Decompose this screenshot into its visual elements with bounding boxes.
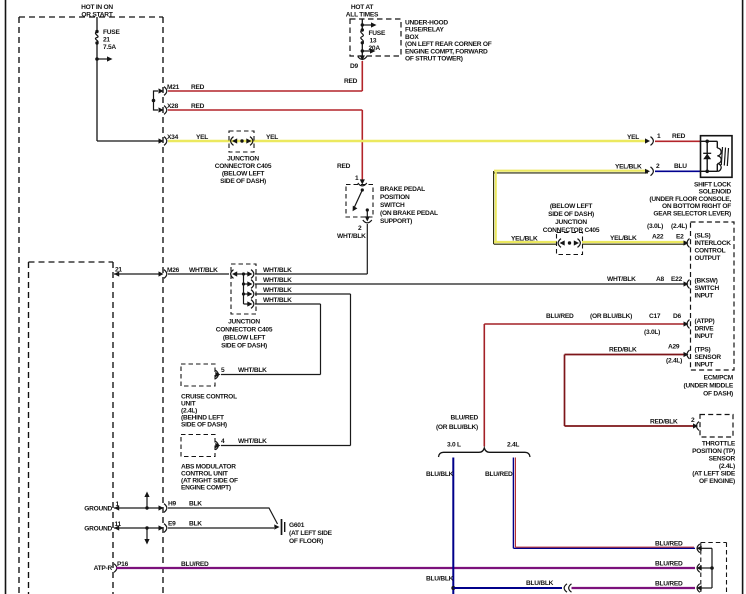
brake pedal position switch pin 2 (358, 216, 372, 232)
connector D9 (344, 55, 367, 85)
svg-text:(BEHIND LEFT: (BEHIND LEFT (181, 415, 224, 422)
svg-text:3.0 L: 3.0 L (447, 442, 461, 449)
svg-text:SIDE OF DASH): SIDE OF DASH) (220, 178, 266, 185)
page arrow up on ground wire (144, 492, 149, 510)
svg-text:YEL: YEL (266, 134, 278, 141)
svg-text:WHT/BLK: WHT/BLK (263, 267, 292, 274)
svg-text:WHT/BLK: WHT/BLK (238, 438, 267, 445)
svg-text:ABS MODULATOR: ABS MODULATOR (181, 464, 236, 471)
inline connector on bottom wire (564, 584, 571, 592)
svg-text:5: 5 (221, 367, 225, 374)
ECM pins A8/E22 (656, 276, 690, 288)
svg-text:(UNDER MIDDLE: (UNDER MIDDLE (684, 383, 734, 390)
connector M21 (159, 84, 205, 95)
svg-text:BLU/BLK: BLU/BLK (426, 471, 454, 478)
svg-text:BRAKE PEDAL: BRAKE PEDAL (380, 186, 425, 193)
connector X34 (159, 134, 209, 145)
svg-text:(TPS): (TPS) (695, 347, 711, 354)
label ECM/PCM (under middle of dash) (684, 375, 734, 398)
svg-text:D9: D9 (350, 63, 359, 70)
label (BKSW) switch input (695, 278, 720, 300)
svg-text:1: 1 (355, 175, 359, 182)
svg-text:BLU/RED: BLU/RED (655, 541, 683, 548)
svg-text:BLU/RED: BLU/RED (655, 581, 683, 588)
svg-text:2: 2 (691, 417, 695, 424)
svg-text:CONNECTOR C405: CONNECTOR C405 (543, 227, 600, 234)
svg-text:E9: E9 (168, 521, 176, 528)
svg-text:SUPPORT): SUPPORT) (380, 218, 412, 225)
svg-text:ALL TIMES: ALL TIMES (346, 12, 379, 19)
page right border (742, 0, 744, 594)
svg-text:(BELOW LEFT: (BELOW LEFT (223, 335, 266, 342)
svg-text:RED/BLK: RED/BLK (650, 419, 678, 426)
wire BLU/BLK junction to inline connector (453, 580, 562, 588)
svg-text:HOT AT: HOT AT (351, 4, 374, 11)
ECM pins A22/E2 (647, 223, 690, 247)
svg-text:SWITCH: SWITCH (695, 285, 720, 292)
svg-text:FUSE: FUSE (369, 30, 386, 37)
labels WHT/BLK at junction rows (263, 267, 292, 304)
svg-text:BLU/RED: BLU/RED (181, 561, 209, 568)
svg-text:2.4L: 2.4L (507, 442, 519, 449)
wire RED pin1 to solenoid (655, 140, 700, 142)
svg-text:A29: A29 (668, 344, 680, 351)
svg-text:SHIFT LOCK: SHIFT LOCK (694, 182, 732, 189)
wire RED/BLK A29 to throttle position sensor (565, 347, 696, 427)
throttle position sensor pin 2 (650, 417, 699, 430)
wire BLU/BLK 3.0L branch (426, 458, 454, 594)
connector X28 (159, 103, 205, 114)
svg-text:(ATPP): (ATPP) (695, 318, 715, 325)
svg-text:(SLS): (SLS) (695, 233, 711, 240)
junction connector C405 (yellow wire) (229, 131, 278, 152)
svg-text:SIDE OF DASH): SIDE OF DASH) (181, 422, 227, 429)
svg-text:OF ENGINE): OF ENGINE) (699, 478, 735, 485)
shift lock solenoid pin 1 (627, 133, 661, 145)
svg-text:WHT/BLK: WHT/BLK (607, 276, 636, 283)
wire WHT/BLK row4 to cruise control unit (221, 304, 321, 375)
wire WHT/BLK row3 to ABS modulator (221, 294, 351, 446)
connector M26 (159, 267, 219, 278)
svg-text:OUTPUT: OUTPUT (695, 255, 721, 262)
TP sensor connector row 3 (697, 584, 713, 593)
svg-text:1: 1 (657, 133, 661, 140)
label throttle position sensor (692, 441, 736, 486)
svg-text:ON BOTTOM RIGHT OF: ON BOTTOM RIGHT OF (662, 203, 731, 210)
svg-text:(OR BLU/BLK): (OR BLU/BLK) (590, 313, 632, 320)
wire WHT/BLK brake switch pin 2 to junction C405 row 1 (255, 224, 367, 274)
svg-text:13: 13 (370, 38, 377, 45)
svg-text:THROTTLE: THROTTLE (702, 441, 736, 448)
svg-text:(OR BLU/BLK): (OR BLU/BLK) (436, 424, 478, 431)
label ABS modulator control unit (181, 464, 238, 492)
svg-text:CONTROL: CONTROL (695, 248, 726, 255)
svg-text:M26: M26 (167, 267, 180, 274)
under-dash fuse/relay box (dashed boundary) (19, 17, 163, 594)
ground G601 (274, 519, 332, 545)
svg-text:WHT/BLK: WHT/BLK (263, 297, 292, 304)
internal bus of TP connector box (710, 548, 714, 588)
label (ATPP) drive input (695, 318, 715, 340)
svg-text:(ON BRAKE PEDAL: (ON BRAKE PEDAL (380, 210, 438, 217)
svg-text:BLU/RED: BLU/RED (485, 471, 513, 478)
label HOT AT ALL TIMES (346, 4, 379, 19)
svg-text:SIDE OF DASH): SIDE OF DASH) (221, 343, 267, 350)
svg-text:WHT/BLK: WHT/BLK (337, 233, 366, 240)
svg-text:(BELOW LEFT: (BELOW LEFT (222, 171, 265, 178)
svg-text:SENSOR: SENSOR (709, 456, 736, 463)
svg-text:INPUT: INPUT (695, 293, 714, 300)
svg-text:BLK: BLK (189, 521, 202, 528)
svg-text:RED: RED (191, 103, 205, 110)
label junction connector C405 (below left side of dash) right (543, 203, 600, 234)
svg-text:WHT/BLK: WHT/BLK (238, 367, 267, 374)
label brake pedal position switch (380, 186, 438, 225)
svg-text:A8: A8 (656, 276, 665, 283)
svg-text:POSITION (TP): POSITION (TP) (692, 448, 735, 455)
connector H9 (159, 501, 203, 513)
svg-text:7.5A: 7.5A (103, 44, 116, 51)
connector E9 (159, 521, 203, 533)
wire YEL X34 to shift lock solenoid pin 1 (168, 140, 648, 142)
svg-text:(AT LEFT SIDE: (AT LEFT SIDE (692, 471, 736, 478)
wire M26 to junction connector C405 (168, 273, 229, 275)
svg-text:WHT/BLK: WHT/BLK (189, 267, 218, 274)
wire fuse21 to X34 (97, 140, 159, 142)
pin P16 ATP-R (94, 561, 129, 572)
svg-text:E2: E2 (676, 234, 684, 241)
svg-text:(BKSW): (BKSW) (695, 278, 718, 285)
svg-text:YEL/BLK: YEL/BLK (511, 236, 538, 243)
svg-text:(UNDER FLOOR CONSOLE,: (UNDER FLOOR CONSOLE, (649, 196, 731, 203)
svg-text:(3.0L): (3.0L) (647, 223, 663, 230)
wire BLU pin2 to solenoid (655, 170, 700, 172)
label junction connector C405 (below left side of dash) (215, 156, 272, 186)
svg-text:21: 21 (103, 37, 110, 44)
wire RED M21 to D9 vertical (168, 61, 362, 91)
svg-text:SIDE OF DASH): SIDE OF DASH) (548, 211, 594, 218)
label HOT IN ON OR START (81, 4, 113, 19)
wire BLK E9 to G601 (168, 527, 274, 529)
brake pedal position switch pin 1 (355, 175, 367, 186)
wire BLU/RED ATP-R to bottom-right connector (116, 567, 695, 569)
svg-text:GEAR SELECTOR LEVER): GEAR SELECTOR LEVER) (653, 210, 731, 217)
svg-text:ENGINE COMPT): ENGINE COMPT) (181, 485, 231, 492)
TP sensor connector row 1 (697, 544, 713, 553)
svg-text:HOT IN ON: HOT IN ON (81, 4, 113, 11)
ECM/PCM dashed box (691, 222, 735, 370)
svg-text:ECM/PCM: ECM/PCM (704, 375, 734, 382)
throttle position sensor 2.4L connector box (701, 543, 727, 594)
svg-text:OF FLOOR): OF FLOOR) (289, 538, 323, 545)
svg-text:YEL: YEL (627, 134, 639, 141)
page arrow down on ground wire (144, 526, 149, 544)
svg-text:BLU: BLU (674, 163, 687, 170)
ABS modulator control unit box (181, 435, 267, 457)
svg-text:RED/BLK: RED/BLK (609, 347, 637, 354)
wire pin21 to M26 (114, 273, 159, 275)
ground pin 11 (84, 521, 121, 533)
svg-text:2: 2 (358, 225, 362, 232)
TP sensor connector row 2 (697, 564, 713, 573)
svg-text:UNDER-HOOD: UNDER-HOOD (405, 20, 448, 27)
svg-text:RED: RED (672, 133, 686, 140)
page left border (5, 0, 7, 594)
svg-text:INTERLOCK: INTERLOCK (695, 240, 732, 247)
svg-text:BLU/RED: BLU/RED (450, 415, 478, 422)
svg-text:WHT/BLK: WHT/BLK (263, 277, 292, 284)
junction dot on BLU/BLK (451, 586, 455, 590)
svg-text:M21: M21 (167, 84, 180, 91)
svg-text:ATP-R: ATP-R (94, 565, 113, 572)
svg-text:OF DASH): OF DASH) (703, 391, 733, 398)
wire YEL/BLK junction to ECM A22/E2 (582, 235, 686, 244)
lower-left component dashed box (29, 262, 114, 594)
svg-text:FUSE/RELAY: FUSE/RELAY (405, 27, 445, 34)
svg-text:OF STRUT TOWER): OF STRUT TOWER) (405, 56, 463, 63)
wire BLU/RED C17/D6 net (436, 313, 685, 447)
svg-text:BLU/BLK: BLU/BLK (526, 580, 554, 587)
label junction connector C405 (WHT/BLK) (216, 319, 273, 350)
svg-text:UNIT: UNIT (181, 401, 196, 408)
svg-text:RED: RED (337, 163, 351, 170)
svg-text:E22: E22 (671, 276, 683, 283)
brake pedal position switch (346, 185, 373, 220)
wire BLU/RED 2.4L branch (485, 458, 695, 549)
shift lock solenoid pin 2 (645, 163, 660, 176)
svg-text:BLU/RED: BLU/RED (655, 561, 683, 568)
svg-text:JUNCTION: JUNCTION (555, 219, 587, 226)
svg-text:SOLENOID: SOLENOID (699, 189, 732, 196)
svg-text:FUSE: FUSE (103, 29, 120, 36)
wire BLU/RED inline connector to TP sensor connector (572, 581, 696, 589)
svg-text:A22: A22 (652, 234, 664, 241)
svg-text:(AT LEFT SIDE: (AT LEFT SIDE (289, 530, 333, 537)
junction dot and bus arrow inside fusebox (95, 56, 112, 61)
svg-text:2: 2 (656, 163, 660, 170)
svg-text:CONNECTOR C405: CONNECTOR C405 (215, 163, 272, 170)
wire ground pin1 to H9 (114, 507, 159, 509)
svg-text:(2.4L): (2.4L) (671, 223, 687, 230)
ECM pin A29 (666, 344, 690, 365)
svg-text:CONNECTOR C405: CONNECTOR C405 (216, 327, 273, 334)
svg-text:(3.0L): (3.0L) (644, 329, 660, 336)
svg-text:SENSOR: SENSOR (695, 354, 722, 361)
svg-text:SWITCH: SWITCH (380, 202, 405, 209)
throttle position sensor box (700, 415, 733, 438)
svg-text:(AT RIGHT SIDE OF: (AT RIGHT SIDE OF (181, 478, 238, 485)
wire ground pin11 to E9 (114, 527, 159, 529)
svg-text:20A: 20A (369, 45, 381, 52)
svg-text:ENGINE COMPT, FORWARD: ENGINE COMPT, FORWARD (405, 48, 488, 55)
svg-text:POSITION: POSITION (380, 194, 410, 201)
svg-text:BLU/BLK: BLU/BLK (426, 576, 454, 583)
svg-text:BLK: BLK (189, 501, 202, 508)
svg-text:GROUND: GROUND (84, 506, 112, 513)
cruise control unit box (181, 364, 267, 386)
fuse 21 7.5A (95, 17, 120, 141)
svg-text:YEL/BLK: YEL/BLK (615, 164, 642, 171)
svg-text:(2.4L): (2.4L) (666, 358, 682, 365)
svg-text:CRUISE CONTROL: CRUISE CONTROL (181, 394, 237, 401)
svg-text:INPUT: INPUT (695, 333, 714, 340)
svg-text:GROUND: GROUND (84, 526, 112, 533)
svg-text:RED: RED (344, 78, 358, 85)
engine split brace (439, 448, 531, 457)
wire RED X28 to brake pedal switch (168, 110, 362, 180)
svg-text:C17: C17 (649, 313, 661, 320)
junction connector C405 (WHT/BLK, 4 rows) (231, 264, 256, 314)
svg-text:JUNCTION: JUNCTION (227, 156, 259, 163)
svg-text:(2.4L): (2.4L) (719, 463, 735, 470)
svg-text:G601: G601 (289, 522, 305, 529)
under-hood fuse/relay box (dashed) (350, 19, 401, 56)
label shift lock solenoid (649, 182, 731, 218)
pin 21 of lower-left box (114, 267, 122, 277)
fuse 13 20A (361, 19, 386, 56)
svg-text:YEL/BLK: YEL/BLK (610, 235, 637, 242)
labels 3.0L and 2.4L (447, 442, 519, 449)
svg-text:D6: D6 (673, 313, 682, 320)
shift lock solenoid (701, 136, 733, 178)
wire WHT/BLK row2 to ECM A8/E22 (255, 283, 685, 285)
junction connector C405 (YEL/BLK wire) (557, 233, 583, 255)
svg-text:4: 4 (221, 438, 225, 445)
label (TPS) sensor input (695, 347, 722, 369)
svg-text:BOX: BOX (405, 34, 419, 41)
svg-text:(ON LEFT REAR CORNER OF: (ON LEFT REAR CORNER OF (405, 41, 492, 48)
label under-hood fuse/relay box (405, 20, 492, 63)
svg-text:BLU/RED: BLU/RED (546, 313, 574, 320)
internal bus bracket joining M21 and X28 (152, 91, 158, 110)
svg-text:CONTROL UNIT: CONTROL UNIT (181, 471, 228, 478)
label cruise control unit (181, 394, 237, 429)
svg-text:RED: RED (191, 84, 205, 91)
svg-text:INPUT: INPUT (695, 362, 714, 369)
svg-text:DRIVE: DRIVE (695, 326, 715, 333)
label (SLS) interlock control output (695, 233, 732, 263)
svg-text:H9: H9 (168, 501, 177, 508)
wire BLK H9 to G601 (168, 508, 278, 524)
svg-text:JUNCTION: JUNCTION (228, 319, 260, 326)
ECM pins C17/D6 (644, 313, 690, 336)
ground pin 1 (84, 501, 119, 513)
svg-text:WHT/BLK: WHT/BLK (263, 287, 292, 294)
wire YEL/BLK solenoid pin 2 net (494, 164, 648, 245)
svg-text:(BELOW LEFT: (BELOW LEFT (550, 203, 593, 210)
svg-text:(2.4L): (2.4L) (181, 408, 197, 415)
svg-text:X28: X28 (167, 103, 179, 110)
